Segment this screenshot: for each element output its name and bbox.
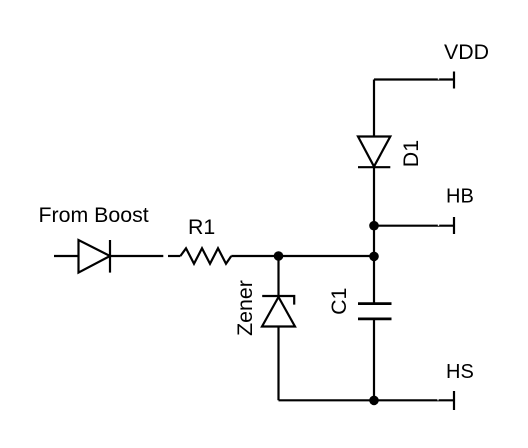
terminal HB <box>453 217 455 234</box>
diode input (from boost) <box>79 240 111 273</box>
svg-text:HS: HS <box>446 361 474 383</box>
svg-text:C1: C1 <box>327 288 351 315</box>
wire joint notch VDD <box>438 78 439 79</box>
wire rail HB node to R1 node <box>373 226 375 257</box>
junction rail / R1 wire <box>369 252 379 262</box>
junction HB node <box>369 221 379 231</box>
svg-text:From Boost: From Boost <box>39 203 149 227</box>
wire input lead left <box>54 255 79 257</box>
terminal VDD <box>453 72 455 89</box>
svg-text:VDD: VDD <box>444 40 489 64</box>
wire diode to resistor <box>110 255 180 257</box>
wire rail C1 to HS node <box>373 319 375 400</box>
junction HS node <box>369 396 379 406</box>
svg-text:D1: D1 <box>399 140 423 167</box>
wire rail VDD to D1 <box>373 80 375 138</box>
wire HS node to terminal <box>374 399 454 401</box>
wire VDD horizontal <box>374 78 454 80</box>
diode D1 <box>358 137 390 168</box>
svg-text:R1: R1 <box>188 215 215 239</box>
wire resistor to zener node <box>231 255 278 257</box>
svg-text:HB: HB <box>446 185 474 207</box>
wire joint notch HS <box>437 399 438 400</box>
diode Zener <box>262 296 295 327</box>
terminal HS <box>453 391 455 410</box>
wire rail R1 node to C1 <box>373 256 375 303</box>
wire joint notch HB <box>438 225 439 226</box>
wire zener bottom to HS wire corner <box>277 327 279 401</box>
wire bottom (zener corner to HS rail node) <box>279 399 375 401</box>
wire rail D1 to HB node <box>373 167 375 226</box>
svg-text:Zener: Zener <box>233 280 257 336</box>
resistor R1 <box>180 248 231 263</box>
junction zener top node <box>274 251 284 261</box>
wire zener node down to zener <box>277 256 279 296</box>
wire HB node to terminal <box>374 225 454 227</box>
wire zener node to rail <box>279 255 375 257</box>
capacitor C1 <box>358 304 392 319</box>
